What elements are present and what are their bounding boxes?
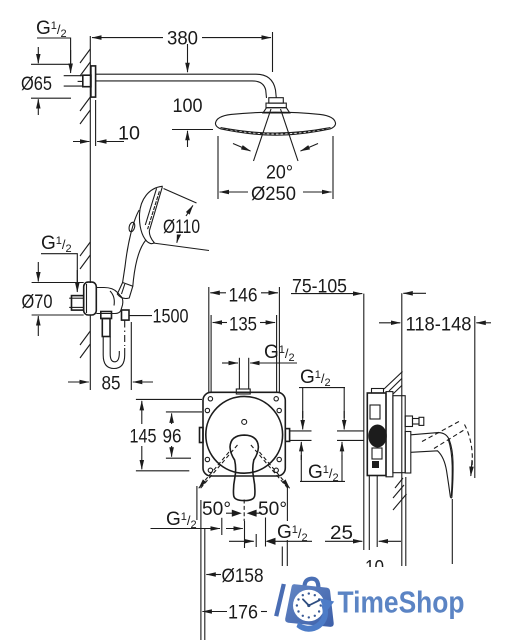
- label G1/2 hand shower with leader: [41, 233, 77, 292]
- svg-text:135: 135: [229, 315, 257, 336]
- lever handle (side view): [411, 433, 453, 498]
- holder hex adapter: [69, 296, 84, 311]
- trim plate (side view): [405, 432, 411, 474]
- dimension O158: [206, 566, 263, 587]
- dimension 10 (wall side view, partially covered): [365, 558, 384, 579]
- plaster shield: [393, 396, 405, 473]
- wall face line (side view): [401, 293, 403, 566]
- holder wall flange: [84, 282, 97, 315]
- head shower disc O250: [215, 112, 335, 135]
- svg-text:Ø158: Ø158: [222, 566, 264, 587]
- svg-text:146: 146: [229, 286, 258, 307]
- svg-text:Ø70: Ø70: [22, 292, 53, 313]
- dimension 380: [92, 29, 273, 73]
- escutcheon circle: [206, 396, 283, 473]
- 50-degree centerline and arrows: [226, 500, 262, 522]
- dimension O70 (holder flange): [22, 262, 84, 336]
- lever handle (front view): [230, 435, 258, 501]
- svg-text:Ø65: Ø65: [21, 74, 52, 95]
- dimension O65 (flange): [21, 47, 71, 115]
- dimension 176: [202, 603, 267, 624]
- screw holes: [205, 397, 281, 473]
- dimension 146: [209, 286, 280, 393]
- center pin hole: [242, 419, 247, 424]
- dimension 145: [130, 399, 203, 470]
- logo swoosh arrow: [297, 605, 329, 632]
- shield edge dropped line: [405, 477, 407, 566]
- hand shower handle: [123, 210, 146, 286]
- hand shower head (edge-on profile): [139, 186, 162, 243]
- supply pipe above plate: [236, 358, 250, 394]
- supply pipe into valve (side): [337, 431, 364, 441]
- label G1/2 top-left with leader: [36, 18, 71, 73]
- side ports (left and right tabs): [200, 428, 290, 443]
- handle grip witness line: [451, 499, 453, 564]
- label G1/2 lower-right with two up arrows: [300, 442, 345, 484]
- handle cone in holder: [117, 283, 133, 299]
- svg-text:1500: 1500: [153, 307, 189, 328]
- label G1/2 bottom-right with leader: [229, 518, 312, 548]
- svg-text:TimeShop: TimeShop: [338, 584, 465, 619]
- svg-text:176: 176: [228, 603, 258, 624]
- logo clock hands: [303, 599, 320, 605]
- dimension 10 (flange thickness): [73, 100, 140, 146]
- 20-degree spray angle lines: [233, 109, 318, 184]
- hose outlet stubs: [101, 310, 129, 337]
- dimension 25: [325, 476, 401, 551]
- svg-text:Ø110: Ø110: [163, 217, 200, 238]
- svg-text:Ø250: Ø250: [251, 184, 296, 205]
- svg-text:145: 145: [130, 427, 157, 448]
- dimension 75-105: [291, 277, 426, 298]
- witness lines bottom-left (plate and circle edges): [201, 500, 205, 640]
- logo stripe: [274, 584, 286, 617]
- dashed rotation lines with arrowheads (front): [199, 445, 290, 490]
- wall (left, section line with hatching): [80, 36, 90, 390]
- logo white background: [268, 567, 518, 640]
- plaster min line (75-105 witness): [363, 294, 365, 550]
- svg-text:380: 380: [167, 29, 198, 50]
- witness lines bottom-right pair: [282, 540, 287, 566]
- logo bag body: [285, 584, 334, 627]
- label G1/2 mid-right with two down arrows: [299, 367, 345, 429]
- wall hatching (side view, above valve): [384, 372, 403, 395]
- through-wall stem with bolt: [405, 416, 424, 427]
- svg-text:50°: 50°: [202, 499, 231, 520]
- svg-text:85: 85: [102, 374, 121, 395]
- wall flange of shower arm: [91, 66, 96, 97]
- hose U-bend: [103, 321, 125, 369]
- logo clock ticks: [296, 592, 322, 618]
- shower arm (horizontal with 90-degree bend): [96, 74, 277, 98]
- svg-text:100: 100: [173, 96, 203, 117]
- valve mounting plate: [386, 392, 393, 477]
- wall hatching (side view, below valve): [393, 478, 407, 510]
- svg-text:10: 10: [118, 124, 140, 145]
- dimension 85: [68, 322, 153, 395]
- dimension 100 (arm to face): [172, 44, 213, 147]
- label G1/2 supply pipe top with arrows: [222, 342, 297, 364]
- label G1/2 bottom-left with leader: [151, 509, 245, 548]
- dimension 118-148: [379, 315, 491, 479]
- svg-text:96: 96: [163, 427, 182, 448]
- svg-text:118-148: 118-148: [406, 315, 472, 336]
- label 50-degrees right: [258, 486, 287, 521]
- escutcheon plate (front view): [203, 392, 285, 476]
- dimension 135: [211, 315, 277, 393]
- holder bracket: [96, 288, 123, 314]
- dimension O250: [218, 136, 333, 205]
- arm ball-joint connector: [263, 98, 290, 113]
- dashed handle open position with rotation arrow: [422, 422, 472, 477]
- svg-text:75-105: 75-105: [292, 277, 347, 298]
- svg-text:20°: 20°: [266, 163, 293, 184]
- port witness lines right: [290, 431, 312, 441]
- supply stub behind wall with square nut: [64, 75, 91, 87]
- svg-text:50°: 50°: [258, 499, 287, 520]
- concealed valve body (side view): [367, 389, 387, 476]
- logo bag handle: [304, 579, 318, 589]
- dimension 96: [163, 412, 203, 458]
- logo clock face: [293, 590, 325, 622]
- label 50-degrees left: [197, 486, 231, 520]
- label 1500 (hose length): [129, 307, 189, 328]
- dimension O110 (hand shower face): [153, 189, 209, 251]
